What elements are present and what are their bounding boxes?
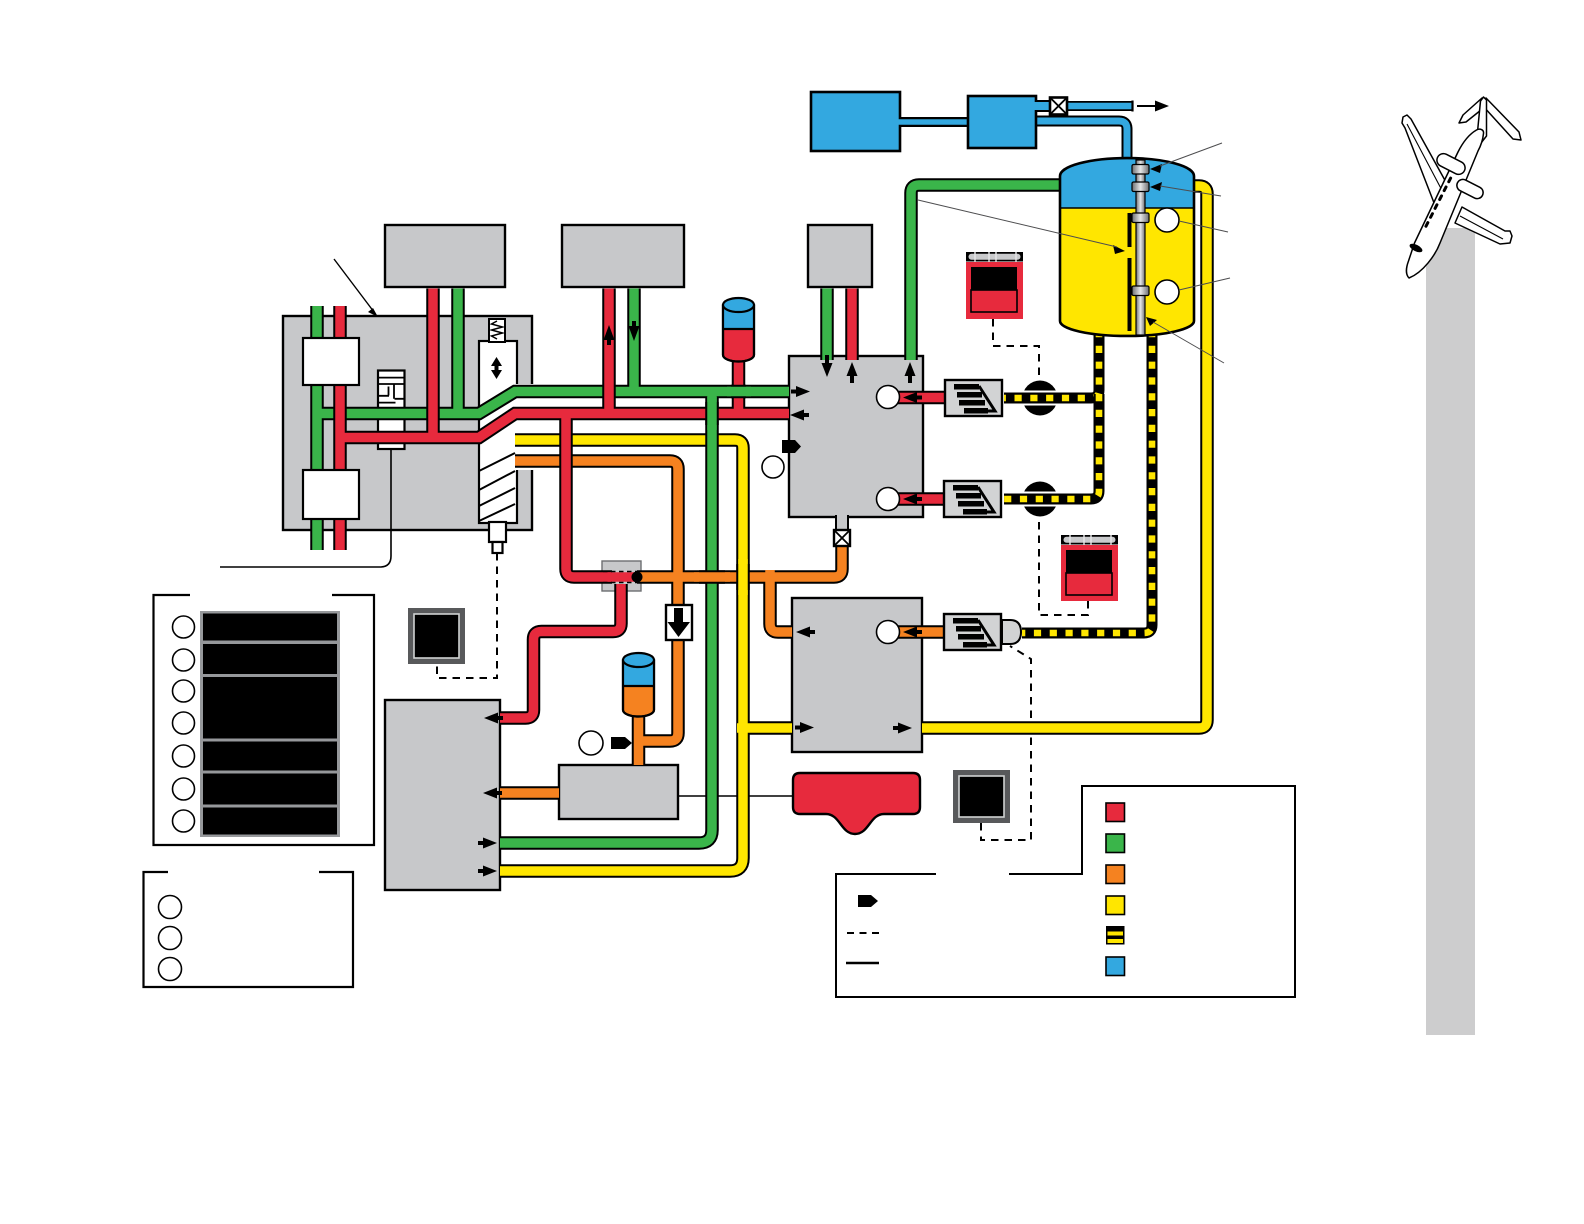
tall box orange arrow xyxy=(483,788,497,799)
blue air line: box2 to reservoir xyxy=(1036,121,1127,172)
manifold left green in arrow xyxy=(796,386,810,397)
orange lines (aux/electric pump pressure) xyxy=(500,461,944,793)
manifold left red out arrow xyxy=(790,410,804,421)
legend: green square xyxy=(1106,834,1125,853)
annunciator lamp circles xyxy=(173,616,195,832)
air relief valve (X) xyxy=(1050,98,1067,115)
reservoir annotation arrows xyxy=(1113,164,1162,326)
port flag: manifold xyxy=(782,440,801,453)
standpipe fitting 4 xyxy=(1132,286,1149,296)
electrical control line: gear selector valve to relay xyxy=(437,553,497,678)
auxiliary manifold (lower) xyxy=(792,598,922,752)
manifold port circle 2 xyxy=(877,488,900,511)
manifold bottom stub xyxy=(836,515,848,531)
tall box yellow arrow xyxy=(483,866,497,877)
annotation circle: aux pump xyxy=(579,731,603,755)
aux hydraulic pump box xyxy=(559,765,678,819)
manifold top green1 down arrow xyxy=(822,363,833,377)
air regulator box 2 xyxy=(968,96,1036,148)
mechanical link line to pull handle xyxy=(678,795,793,797)
legend: mechanical solid line xyxy=(846,962,879,965)
legend: port flag symbol xyxy=(858,895,878,907)
check valve (down arrow box) xyxy=(666,605,692,640)
red pull handle xyxy=(793,773,920,834)
legend: blue square xyxy=(1106,957,1125,976)
annotation leader lines xyxy=(918,143,1230,363)
side bar xyxy=(1426,228,1475,1035)
electrical control line: fire valve 1 indicator to shutoff valve 1 xyxy=(993,319,1039,378)
lower panel circles xyxy=(159,896,182,981)
selector valve spring cap xyxy=(489,319,505,342)
tailplane right half xyxy=(1483,98,1521,140)
red lines (system pressure) xyxy=(340,289,945,719)
selector valve stem xyxy=(489,522,506,553)
crossing patch: yellow line over orange main xyxy=(736,559,750,595)
aux accumulator xyxy=(623,653,654,717)
aux box left orange arrow xyxy=(796,627,810,638)
engine2 red up arrow xyxy=(604,325,615,340)
engine 3 box (top right) xyxy=(808,225,872,287)
green lines (system return) xyxy=(317,185,1062,843)
lower info panel bracket xyxy=(144,872,354,987)
solenoid relay box (gear selector control) xyxy=(408,608,465,664)
landing gear actuator box (tall left) xyxy=(385,700,500,890)
aux manifold port circle xyxy=(877,621,900,644)
aux box right orange arrow xyxy=(903,627,917,638)
fin xyxy=(1477,97,1487,143)
engine nacelle left xyxy=(1435,151,1468,176)
legend: yellow square xyxy=(1106,896,1125,915)
junction box (priority valve) xyxy=(602,561,641,591)
left wing xyxy=(1402,115,1452,208)
reservoir baffle xyxy=(1128,213,1132,331)
main pressure manifold xyxy=(789,356,923,517)
selector valve double arrow xyxy=(491,357,502,379)
suction line: reservoir to electric pump 3 (yellow/black) xyxy=(1022,330,1152,633)
flow arrows xyxy=(478,321,922,877)
hydraulic reservoir xyxy=(1060,158,1194,336)
legend box outline xyxy=(836,786,1295,997)
brake valve lower (white box) xyxy=(303,470,359,519)
airplane xyxy=(1402,97,1521,278)
overboard vent arrow xyxy=(1133,101,1170,112)
annunciator plate xyxy=(200,611,340,837)
suction line: reservoir to pump 1 (yellow/black) xyxy=(1004,330,1099,398)
suction line casing through valves (white) xyxy=(1016,398,1066,499)
air connector line xyxy=(898,117,968,127)
fire valve 1 indicator xyxy=(966,252,1023,319)
standpipe fitting 3 xyxy=(1132,213,1149,223)
tall box green arrow xyxy=(483,838,497,849)
standpipe fitting 2 xyxy=(1132,182,1149,192)
legend: red square xyxy=(1106,803,1125,822)
gear selector valve body xyxy=(479,341,535,523)
engine pump 2 xyxy=(944,481,1001,517)
crossing patch: green return over red main xyxy=(705,397,719,430)
engine 2 box xyxy=(562,225,684,287)
legend: orange square xyxy=(1106,865,1125,884)
thin line from shuttle valve to annunciator area xyxy=(220,449,391,567)
leader arrow to panel xyxy=(334,259,378,317)
crossing patch: green main over accumulator stem xyxy=(727,385,751,399)
manifold right red stub arrow 2 xyxy=(903,494,917,505)
electric pump 3 xyxy=(944,614,1021,650)
suction line: reservoir branch to pump 2 (yellow/black) xyxy=(1004,394,1099,499)
cabin windows xyxy=(1408,176,1452,254)
brake/gear control panel xyxy=(283,316,532,530)
engine2 green down arrow xyxy=(629,326,640,341)
aux box yellow bottom-left arrow xyxy=(800,722,814,733)
port flag: aux pump xyxy=(611,737,632,749)
legend: electrical dashed line xyxy=(847,932,879,934)
tall box red arrow xyxy=(484,713,498,724)
manifold right red stub arrow 1 xyxy=(903,392,917,403)
engine 1 box xyxy=(385,225,505,287)
manifold top red up arrow xyxy=(847,362,858,376)
air overboard line xyxy=(1066,101,1133,111)
reservoir sight glass 2 xyxy=(1155,280,1179,304)
electrical control line: fire valve 2 indicator to shutoff valve 2 xyxy=(1039,519,1088,615)
reservoir standpipe xyxy=(1136,160,1145,335)
manifold top green2 up arrow xyxy=(905,362,916,376)
system A accumulator xyxy=(723,298,754,362)
fire valve 2 indicator xyxy=(1061,535,1118,601)
annunciator panel bracket xyxy=(154,595,375,845)
air source box 1 xyxy=(811,92,900,151)
firewall shutoff valve 1 (black) xyxy=(1023,381,1058,416)
brake valve upper (white box) xyxy=(303,338,359,385)
crossing patch: orange main over green return xyxy=(694,570,730,584)
yellow lines (gear down / aux return) xyxy=(500,186,1207,871)
manifold port circle 1 xyxy=(877,386,900,409)
aux box yellow bottom-right arrow xyxy=(898,723,912,734)
standpipe fitting 1 xyxy=(1132,165,1149,175)
fuselage xyxy=(1406,129,1483,278)
annotation circle: manifold xyxy=(762,456,784,478)
tailplane left half xyxy=(1459,98,1486,123)
reservoir sight glass 1 xyxy=(1155,208,1179,232)
junction box internals xyxy=(603,572,643,583)
air stub to relief valve xyxy=(1034,100,1052,112)
engine nacelle right xyxy=(1455,177,1485,200)
selector valve hatch lines xyxy=(479,453,515,521)
shuttle valve (maze symbol) xyxy=(378,371,405,450)
firewall shutoff valve 2 (black) xyxy=(1023,482,1058,517)
electric pump relay box xyxy=(953,770,1010,823)
electrical control line: electric pump relay to pump 3 xyxy=(981,646,1031,840)
right wing xyxy=(1455,207,1512,244)
manifold shutoff valve (X) xyxy=(834,530,850,546)
legend: suction line symbol xyxy=(1106,926,1125,945)
engine pump 1 xyxy=(945,380,1002,416)
